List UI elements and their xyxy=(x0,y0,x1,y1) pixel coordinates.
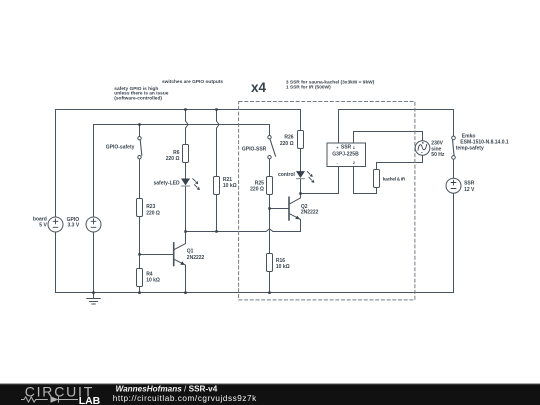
svg-text:1 SSR for IR (500W): 1 SSR for IR (500W) xyxy=(286,85,331,91)
svg-text:3 SSR for sauna-kachel (3x3kW: 3 SSR for sauna-kachel (3x3kW = 9kW) xyxy=(286,80,375,86)
svg-text:LAB: LAB xyxy=(79,395,101,405)
svg-text:G3PJ-225B: G3PJ-225B xyxy=(332,152,359,158)
svg-text:GPIO-SSR: GPIO-SSR xyxy=(242,146,267,152)
svg-text:GPIO-safety: GPIO-safety xyxy=(106,145,135,151)
svg-text:temp-safety: temp-safety xyxy=(456,146,484,152)
svg-text:12 V: 12 V xyxy=(464,187,475,193)
svg-text:Q1: Q1 xyxy=(187,249,194,255)
svg-text:WannesHofmans / SSR-v4: WannesHofmans / SSR-v4 xyxy=(116,384,218,393)
svg-text:kachel & IR: kachel & IR xyxy=(383,176,406,181)
svg-text:220 Ω: 220 Ω xyxy=(250,186,264,192)
svg-text:50 Hz: 50 Hz xyxy=(431,152,445,158)
svg-text:3.3 V: 3.3 V xyxy=(68,223,80,229)
svg-text:220 Ω: 220 Ω xyxy=(280,141,294,147)
svg-text:http://circuitlab.com/cgrvujds: http://circuitlab.com/cgrvujdss9z7k xyxy=(113,394,257,403)
svg-text:safety-LED: safety-LED xyxy=(153,180,180,186)
svg-text:control: control xyxy=(278,172,296,178)
svg-text:Emko: Emko xyxy=(462,133,476,139)
svg-text:5 V: 5 V xyxy=(39,223,47,229)
svg-text:(software-controlled): (software-controlled) xyxy=(114,96,162,102)
svg-text:switches are GPIO outputs: switches are GPIO outputs xyxy=(162,79,223,85)
svg-text:2N2222: 2N2222 xyxy=(187,255,205,261)
svg-text:x4: x4 xyxy=(251,80,267,95)
svg-text:SSR: SSR xyxy=(341,145,352,151)
svg-text:board: board xyxy=(33,216,47,222)
svg-text:SSR: SSR xyxy=(464,181,475,187)
svg-text:ESM-1510-N.8.14.0.1: ESM-1510-N.8.14.0.1 xyxy=(460,139,509,145)
svg-text:220 Ω: 220 Ω xyxy=(166,156,180,162)
svg-text:10 kΩ: 10 kΩ xyxy=(223,183,237,189)
svg-text:10 kΩ: 10 kΩ xyxy=(146,278,160,284)
svg-text:R23: R23 xyxy=(146,204,155,210)
svg-text:2N2222: 2N2222 xyxy=(301,209,319,215)
svg-text:220 Ω: 220 Ω xyxy=(146,210,160,216)
svg-text:R26: R26 xyxy=(284,135,293,141)
svg-text:10 kΩ: 10 kΩ xyxy=(276,264,290,270)
